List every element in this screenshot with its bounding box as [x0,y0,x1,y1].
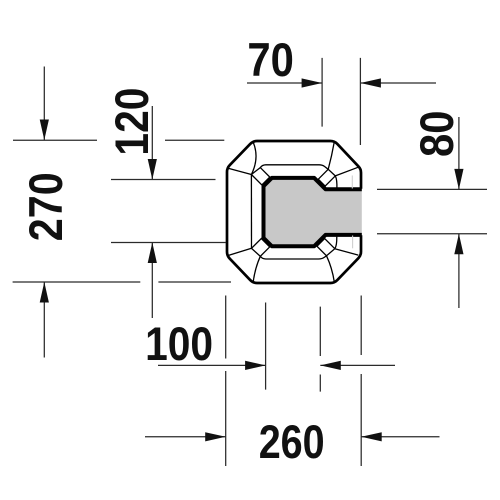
corner facet bottom-left [228,239,270,283]
dimension 100 arrows [245,361,341,370]
svg-text:270: 270 [20,172,73,241]
extension line D (bottom of shape, y=282) [13,281,231,283]
inner rim right stub bottom [335,237,337,249]
dimension 70 line [247,82,436,84]
dimension 80 extension lines [377,189,487,233]
basin thick outline [264,178,362,246]
faint rim line right top [351,176,353,189]
dimension 80 arrows [454,169,463,254]
faint rim line right bottom [352,236,354,249]
dimension 100 extension lines [266,303,321,392]
basin gray fill [264,178,362,246]
corner facet top-right [318,142,358,186]
dimension 70 extension lines [322,58,360,145]
dimension 270 line [43,67,45,358]
dimension 260 arrows [205,432,382,441]
dimension 70 arrows [302,78,381,87]
corner facet top-left [228,142,270,185]
extension line C (basin bottom, y=242.5) [111,242,226,244]
svg-text:100: 100 [145,318,213,371]
inner rim right stub top [335,176,337,189]
outer octagon outline [227,141,361,283]
corner facet bottom-right [317,239,358,282]
dimension 270 arrows [40,120,49,303]
dimension 80 line [458,117,460,308]
dimension 260 line [145,436,440,438]
svg-text:80: 80 [411,110,464,157]
dimension 100 line [158,364,395,366]
svg-text:70: 70 [247,34,294,87]
inner rim top edge [260,165,328,170]
svg-text:120: 120 [106,88,159,156]
svg-text:260: 260 [259,416,325,469]
inner rim left edge [250,175,252,249]
extension line B (basin top, y=179.5) [111,179,216,181]
dimension 120 arrows [148,159,157,263]
dimension 260 extension lines [226,296,362,467]
dimension 120 line [151,106,153,318]
inner rim bottom edge [260,256,326,259]
extension line A (top of shape, y=140) [13,139,224,141]
